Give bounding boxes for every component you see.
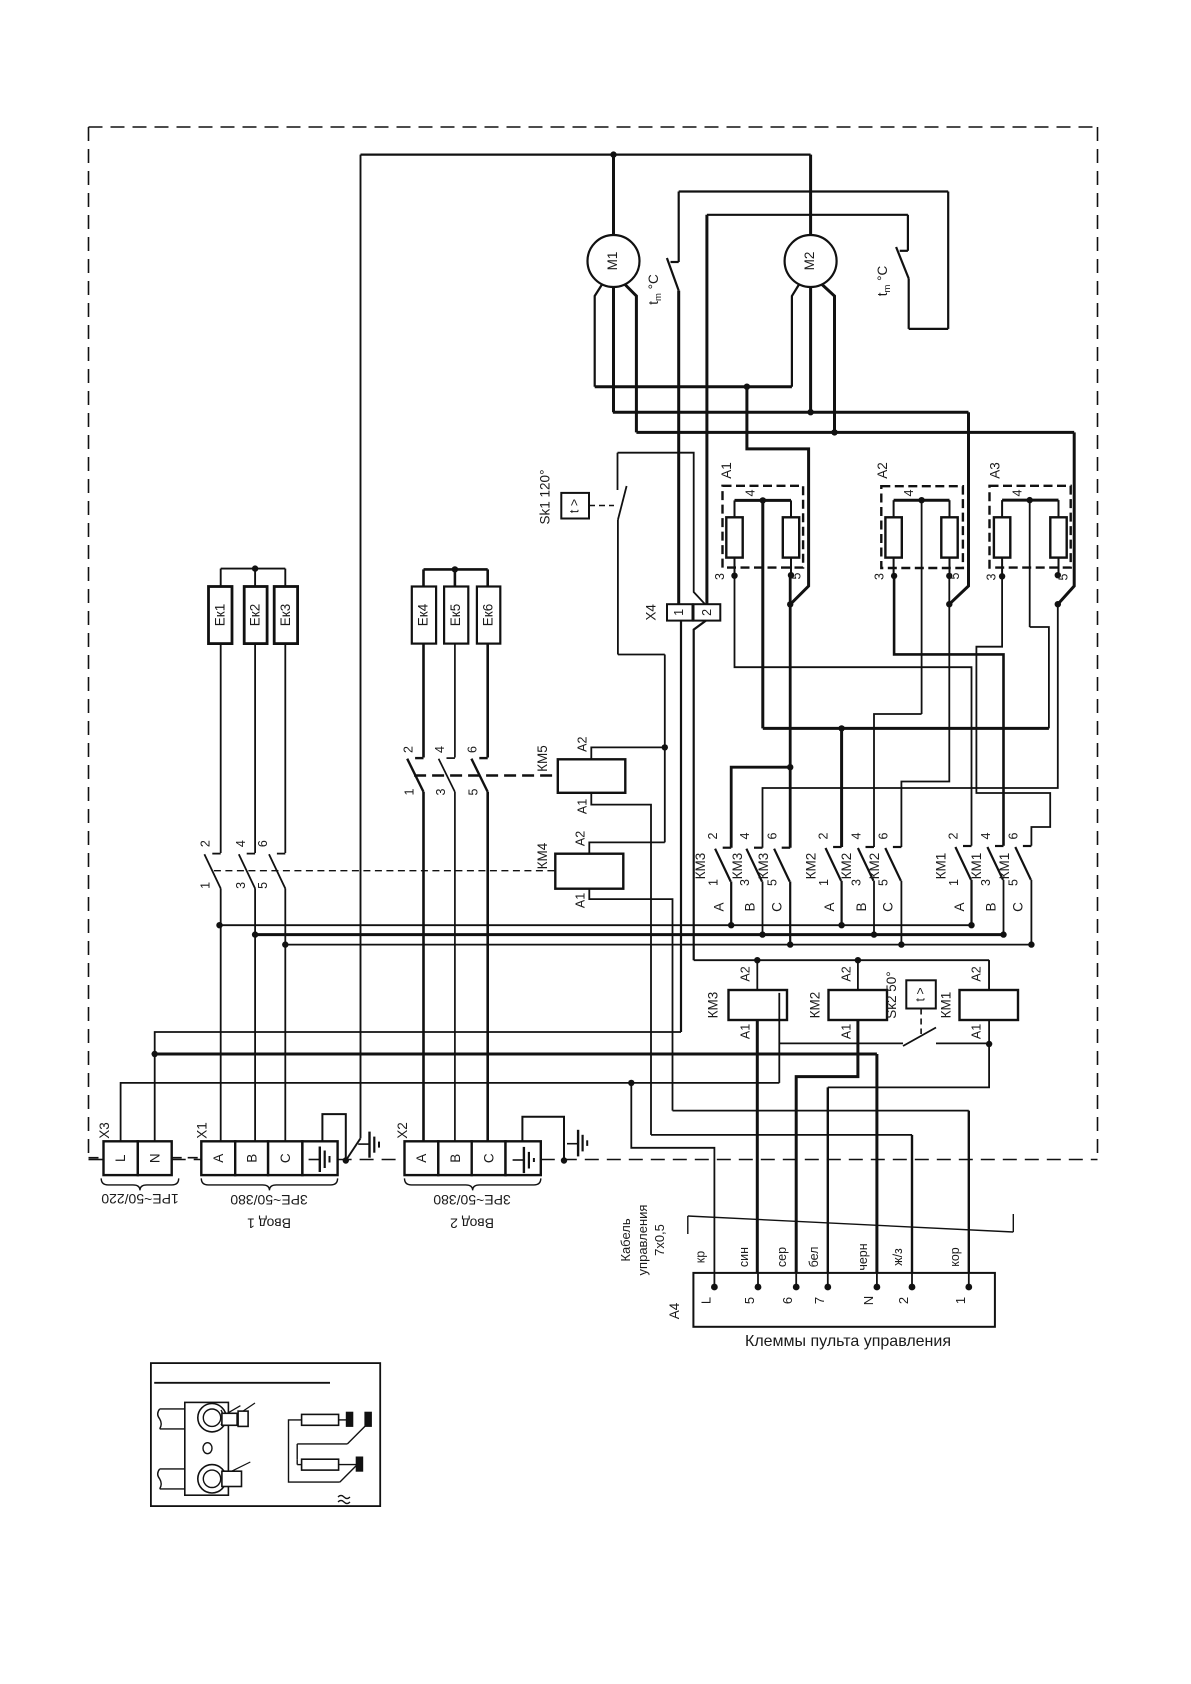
wire X4-2 down to coil A2 bus	[694, 621, 706, 961]
coil KM3	[729, 990, 788, 1020]
node A1 pin 3	[713, 573, 738, 580]
svg-text:A1: A1	[576, 799, 590, 814]
label Sk1 120	[538, 470, 553, 525]
wires Ek4-6 contacts down to X2	[424, 792, 488, 1141]
label Sk2 50	[884, 971, 899, 1018]
terminal X3	[104, 1141, 172, 1175]
thermal contact tm M2	[875, 215, 909, 329]
svg-text:X2: X2	[395, 1122, 410, 1139]
contact KM4 pole 1	[199, 840, 221, 889]
label A4 terminal L	[698, 1297, 713, 1304]
label A4 terminal 7	[812, 1297, 827, 1304]
label coil KM3	[706, 992, 721, 1019]
coil KM1	[960, 990, 1019, 1020]
wire KM3 A1 to A4-5	[739, 1020, 758, 1287]
contact KM2 pole C	[867, 832, 901, 944]
svg-text:A1: A1	[839, 1024, 853, 1039]
svg-text:4: 4	[902, 489, 916, 496]
wire A3 internal bus 4	[1002, 497, 1058, 627]
svg-text:4: 4	[738, 832, 752, 839]
wire X2 PE jumper	[522, 1117, 567, 1164]
svg-text:Ввод 1: Ввод 1	[247, 1216, 291, 1232]
svg-text:A2: A2	[739, 966, 753, 981]
svg-text:С: С	[482, 1153, 497, 1163]
coil KM4	[555, 854, 623, 889]
thermostat Sk1 sensor box	[561, 493, 589, 519]
label A4 terminal 6	[780, 1297, 795, 1304]
heater Ek5	[444, 587, 468, 644]
terminal A4 connection dots	[711, 1273, 972, 1291]
detail figure frame	[151, 1363, 380, 1506]
wire L distribution	[121, 1080, 780, 1142]
dashed linkage KM5 contacts to coil	[414, 774, 558, 776]
dashed box unit A2	[881, 486, 963, 568]
svg-text:М1: М1	[605, 252, 620, 271]
resistor A2 left element	[885, 500, 901, 576]
label wire colour сер	[775, 1247, 789, 1267]
wire A2 pin5 to KM2 pole C	[901, 576, 949, 847]
label wire colour кор	[948, 1247, 962, 1267]
label coil KM2	[808, 992, 823, 1019]
wire phase line 2 (y=412)	[613, 409, 969, 415]
label X2 system	[433, 1192, 511, 1208]
wire phase3 branch to A3 terminal 5	[1055, 432, 1075, 607]
label A4	[667, 1302, 682, 1319]
label X2 vvod 2	[450, 1216, 494, 1232]
svg-text:1: 1	[403, 788, 417, 795]
wire A1/A3 pin4 bus to KM2 pole A	[838, 627, 1049, 847]
label X3	[97, 1122, 112, 1139]
label KM4 A2	[574, 831, 588, 846]
svg-text:кор: кор	[948, 1247, 962, 1267]
motor M2	[785, 235, 837, 287]
svg-text:3РЕ~50/380: 3РЕ~50/380	[433, 1192, 511, 1208]
contact KM2 pole B	[839, 832, 874, 934]
wire KM5 A1 to A4-2	[651, 1135, 912, 1287]
svg-text:КМ2: КМ2	[839, 853, 854, 880]
wire X4-2 top lead	[705, 215, 708, 604]
detail figure equivalent circuit	[289, 1412, 372, 1503]
svg-text:4: 4	[744, 489, 758, 496]
label A4 terminal 5	[742, 1297, 757, 1304]
svg-text:С: С	[881, 902, 896, 912]
svg-text:черн: черн	[856, 1243, 870, 1270]
svg-text:Ек3: Ек3	[278, 604, 293, 626]
label KM5	[535, 745, 550, 772]
switch contact Sk2	[779, 993, 989, 1083]
dashed link Sk1 to switch	[589, 505, 614, 507]
svg-text:А: А	[211, 1154, 226, 1163]
wire KM4 A2	[589, 842, 665, 853]
contact KM3 pole B	[730, 832, 763, 934]
contact KM4 pole 2	[234, 840, 255, 889]
coil KM2	[829, 990, 888, 1020]
enclosure dashed border (cabinet outline)	[89, 127, 1098, 1160]
contact KM5 pole 2	[433, 746, 455, 796]
terminal X4 pin 1	[667, 604, 693, 620]
wires Ek4-6 to contacts	[424, 644, 488, 758]
wire N to A4-N	[155, 1054, 877, 1287]
svg-text:1: 1	[947, 879, 961, 886]
svg-text:КМ1: КМ1	[939, 992, 954, 1019]
svg-text:Ек6: Ек6	[480, 604, 495, 626]
svg-text:6: 6	[256, 840, 270, 847]
detail figure heater block pictorial	[158, 1402, 255, 1495]
svg-text:3РЕ~50/380: 3РЕ~50/380	[230, 1192, 308, 1208]
svg-text:3: 3	[873, 573, 887, 580]
contact KM3 pole C	[756, 832, 790, 944]
label unit A2	[875, 462, 890, 479]
wire A3 pin5 to KM3 pole B	[763, 604, 1058, 848]
svg-text:A2: A2	[576, 737, 590, 752]
wire phase line 1 (y=387)	[595, 384, 792, 390]
terminal X2 phases	[405, 1141, 506, 1175]
wire A1 pin4 segment	[763, 727, 842, 730]
label A1 pin 4	[744, 489, 758, 496]
svg-text:4: 4	[850, 832, 864, 839]
label unit A3	[988, 462, 1003, 479]
svg-text:4: 4	[234, 840, 248, 847]
wires Ek contacts down to X1	[221, 889, 286, 1142]
wires M2 bottom leads	[792, 285, 835, 433]
svg-text:3: 3	[713, 573, 727, 580]
svg-text:X4: X4	[644, 604, 659, 621]
wire A3 pin3 to KM1 pole C	[976, 576, 1050, 845]
svg-text:А: А	[414, 1154, 429, 1163]
label wire colour черн	[856, 1243, 870, 1270]
svg-text:Кабель: Кабель	[618, 1218, 633, 1261]
label A3 pin 4	[1011, 489, 1025, 496]
wire tm loop M1-M2	[679, 192, 949, 329]
svg-text:КМ5: КМ5	[535, 745, 550, 772]
label unit A1	[719, 462, 734, 479]
wire KM4 A1 down	[589, 889, 672, 1111]
svg-text:КМ3: КМ3	[706, 992, 721, 1019]
svg-text:ж/з: ж/з	[891, 1248, 905, 1266]
svg-text:A2: A2	[970, 966, 984, 981]
svg-text:син: син	[737, 1247, 751, 1267]
contact KM5 pole 1	[402, 746, 424, 796]
label A4 terminal N	[861, 1296, 876, 1305]
wire A2 internal bus 4	[894, 497, 950, 714]
wire A1 internal bus 4	[735, 497, 792, 728]
contact KM2 pole A	[804, 832, 842, 925]
label X2	[395, 1122, 410, 1139]
resistor A3 left element	[994, 500, 1010, 576]
dashed link Sk2 to switch	[920, 1009, 922, 1035]
svg-text:КМ4: КМ4	[535, 842, 550, 869]
svg-text:КМ3: КМ3	[693, 853, 708, 880]
svg-text:1: 1	[817, 879, 831, 886]
enclosure bottom dashed edge	[89, 1159, 1098, 1161]
svg-text:A3: A3	[988, 462, 1003, 479]
svg-text:7х0,5: 7х0,5	[652, 1224, 667, 1256]
wire L to A4-L	[631, 1083, 714, 1287]
svg-text:В: В	[448, 1154, 463, 1163]
svg-text:В: В	[984, 902, 999, 911]
svg-text:КМ1: КМ1	[934, 853, 949, 880]
brace X2	[405, 1178, 541, 1190]
svg-text:3: 3	[985, 573, 999, 580]
wires M1 bottom leads	[595, 285, 637, 433]
wire KM2 A2	[839, 960, 858, 990]
dashed enclosure pass X3	[89, 1157, 202, 1159]
svg-text:Клеммы пульта управления: Клеммы пульта управления	[745, 1333, 951, 1350]
svg-text:5: 5	[467, 788, 481, 795]
svg-text:5: 5	[256, 882, 270, 889]
heater Ek1	[209, 587, 233, 644]
node A3 pin 3	[985, 573, 1006, 580]
svg-text:Ек5: Ек5	[448, 604, 463, 626]
terminal X4 pin 2	[694, 604, 721, 620]
svg-text:A1: A1	[574, 893, 588, 908]
svg-text:L: L	[698, 1297, 713, 1304]
svg-text:7: 7	[812, 1297, 827, 1304]
svg-text:Ек2: Ек2	[248, 604, 263, 626]
svg-text:С: С	[770, 902, 785, 912]
wire N riser to thermal chain	[152, 1032, 682, 1141]
svg-text:3: 3	[979, 879, 993, 886]
label X1 system	[230, 1192, 308, 1208]
svg-text:КМ2: КМ2	[808, 992, 823, 1019]
brace X1	[201, 1178, 337, 1190]
label X1	[195, 1122, 210, 1139]
svg-text:Sk1 120°: Sk1 120°	[538, 470, 553, 525]
svg-text:2: 2	[896, 1297, 911, 1304]
heater Ek6	[477, 587, 500, 644]
svg-text:М2: М2	[802, 252, 817, 271]
label KM4	[535, 842, 550, 869]
ground symbol X2	[567, 1130, 587, 1157]
svg-text:А: А	[712, 902, 727, 911]
svg-text:1РЕ~50/220: 1РЕ~50/220	[101, 1191, 179, 1207]
svg-text:A2: A2	[875, 462, 890, 479]
resistor A1 right element	[783, 500, 799, 575]
wire bus phase A	[216, 922, 974, 928]
svg-text:КМ3: КМ3	[756, 853, 771, 880]
terminal strip A4	[693, 1273, 995, 1327]
label KM5 A1	[576, 799, 590, 814]
thermal contact tm M1	[646, 192, 679, 305]
dashed box unit A1	[723, 486, 804, 568]
svg-text:4: 4	[1011, 489, 1025, 496]
svg-text:КМ1: КМ1	[969, 853, 984, 880]
label wire colour син	[737, 1247, 751, 1267]
wire KM3 A2	[739, 960, 758, 990]
resistor A1 left element	[726, 500, 742, 575]
wire M2 top lead	[809, 155, 812, 235]
wire A1 pin3 to KM1 pole A	[735, 576, 972, 846]
label cable 7x0.5	[618, 1205, 667, 1276]
label KM5 A2	[576, 737, 590, 752]
node M1 feed junction	[610, 151, 616, 157]
svg-text:управления: управления	[635, 1205, 650, 1276]
svg-text:4: 4	[979, 832, 993, 839]
svg-text:A2: A2	[839, 966, 853, 981]
svg-text:L: L	[113, 1154, 128, 1162]
svg-text:A4: A4	[667, 1302, 682, 1319]
switch contact Sk1	[618, 453, 665, 655]
svg-text:А: А	[822, 902, 837, 911]
wire coil A2 feed bus from X4-2	[694, 957, 989, 990]
svg-text:Sk2 50°: Sk2 50°	[884, 971, 899, 1018]
svg-text:КМ2: КМ2	[804, 853, 819, 880]
svg-text:КМ1: КМ1	[997, 853, 1012, 880]
svg-text:2: 2	[402, 746, 416, 753]
svg-text:С: С	[1011, 902, 1026, 912]
wire phase2 branch to A2 terminal 5	[946, 412, 968, 607]
contact KM1 pole B	[969, 832, 1004, 934]
dashed box unit A3	[990, 486, 1071, 568]
wire to A4-1	[673, 1111, 969, 1287]
svg-text:2: 2	[199, 840, 213, 847]
svg-text:t >: t >	[568, 499, 582, 513]
wire bus phase B	[252, 931, 1007, 937]
svg-text:В: В	[245, 1154, 260, 1163]
wire A1 pin5 to KM3 poles A and C	[731, 575, 793, 848]
label A4 terminal 1	[953, 1297, 968, 1304]
terminal X1 phases	[201, 1141, 302, 1175]
wire A2 pin4 to KM2 pole B	[874, 714, 922, 847]
svg-text:1: 1	[199, 882, 213, 889]
contact KM1 pole A	[934, 832, 972, 925]
wire X4-1 down to N link	[680, 621, 682, 1032]
svg-text:С: С	[278, 1153, 293, 1163]
svg-text:A1: A1	[719, 462, 734, 479]
svg-text:6: 6	[1007, 832, 1021, 839]
dashed linkage KM4 contacts to coil	[214, 870, 555, 872]
svg-text:6: 6	[766, 832, 780, 839]
wire Sk1 to KM coils A2	[664, 655, 666, 843]
wires Ek1-3 to contacts	[221, 644, 286, 853]
wire Ek1-3 top bus	[221, 565, 286, 586]
svg-text:5: 5	[877, 879, 891, 886]
svg-text:3: 3	[434, 788, 448, 795]
svg-text:N: N	[861, 1296, 876, 1305]
wire Ek4-6 top bus	[424, 566, 488, 586]
label X4	[644, 604, 659, 621]
wire KM5 A1 down	[591, 793, 651, 1135]
svg-text:Ввод 2: Ввод 2	[450, 1216, 494, 1232]
cable marker line	[688, 1214, 1014, 1234]
svg-text:А: А	[952, 902, 967, 911]
contact KM5 pole 3	[466, 746, 488, 796]
wire bus phase C	[282, 941, 1035, 947]
svg-text:бел: бел	[807, 1247, 821, 1268]
svg-text:6: 6	[780, 1297, 795, 1304]
wire KM1 A2	[970, 960, 990, 990]
wire M1 top lead	[612, 155, 615, 235]
svg-text:t >: t >	[914, 987, 928, 1001]
wire phase1 branch to A1 terminal 5	[747, 387, 809, 605]
contact KM3 pole A	[693, 832, 731, 925]
svg-text:2: 2	[700, 609, 714, 616]
svg-text:A1: A1	[739, 1024, 753, 1039]
thermostat Sk2 sensor box	[906, 980, 936, 1008]
wire top feed bus and PE riser	[346, 155, 811, 1161]
label klemmy pulta upravleniya	[745, 1333, 951, 1350]
svg-text:Ек1: Ек1	[213, 604, 228, 626]
svg-text:кр: кр	[693, 1251, 707, 1263]
node A2 pin 3	[873, 573, 898, 580]
node A1 pin 5	[787, 572, 804, 608]
wire tm M2 to X4-2	[707, 214, 908, 216]
motor M1	[588, 235, 640, 287]
svg-text:X3: X3	[97, 1122, 112, 1139]
node A3 pin 5	[1055, 572, 1071, 580]
label wire colour кр	[693, 1251, 707, 1263]
node A2 pin 5	[946, 572, 962, 579]
svg-text:2: 2	[706, 832, 720, 839]
svg-text:X1: X1	[195, 1122, 210, 1139]
heater Ek2	[244, 587, 267, 644]
wire phase line 3 (y=432)	[636, 429, 1074, 435]
svg-text:В: В	[854, 902, 869, 911]
svg-text:6: 6	[466, 746, 480, 753]
label X3 system	[101, 1191, 179, 1207]
svg-text:3: 3	[234, 882, 248, 889]
ground symbol X1	[358, 1132, 379, 1158]
terminal X1 PE cell	[302, 1141, 337, 1175]
svg-text:5: 5	[1007, 879, 1021, 886]
svg-text:3: 3	[850, 879, 864, 886]
svg-text:4: 4	[433, 746, 447, 753]
wire KM1 A1 to A4-7	[828, 1020, 993, 1287]
svg-text:5: 5	[742, 1297, 757, 1304]
svg-text:N: N	[148, 1153, 163, 1163]
wire KM2 A1 to A4-6	[796, 1020, 858, 1287]
label A4 terminal 2	[896, 1297, 911, 1304]
svg-text:КМ3: КМ3	[730, 853, 745, 880]
svg-text:6: 6	[877, 832, 891, 839]
wire A2 pin3 to KM1 pole B	[894, 576, 1003, 846]
wire tm M1 to X4-1	[677, 291, 680, 605]
heater Ek3	[274, 587, 297, 644]
svg-text:1: 1	[672, 609, 686, 616]
svg-text:Ек4: Ек4	[416, 603, 431, 626]
label coil KM1	[939, 992, 954, 1019]
svg-text:2: 2	[947, 832, 961, 839]
resistor A3 right element	[1050, 500, 1066, 575]
heater Ek4	[412, 587, 436, 644]
coil KM5	[558, 759, 626, 793]
svg-text:A2: A2	[574, 831, 588, 846]
wire X1 PE jumper	[322, 1114, 349, 1164]
brace X3	[101, 1178, 179, 1190]
svg-text:A1: A1	[970, 1024, 984, 1039]
svg-text:1: 1	[707, 879, 721, 886]
terminal X2 PE cell	[506, 1141, 541, 1175]
label wire colour ж/з	[891, 1248, 905, 1266]
svg-text:В: В	[743, 902, 758, 911]
resistor A2 right element	[941, 500, 957, 576]
label wire colour бел	[807, 1247, 821, 1268]
svg-text:1: 1	[953, 1297, 968, 1304]
svg-text:КМ2: КМ2	[867, 853, 882, 880]
contact KM1 pole C	[997, 832, 1031, 944]
label X1 vvod 1	[247, 1216, 291, 1232]
wire Sk1 to X4-2	[618, 453, 706, 605]
svg-text:2: 2	[817, 832, 831, 839]
svg-text:5: 5	[766, 879, 780, 886]
svg-text:сер: сер	[775, 1247, 789, 1267]
wire KM5 A2	[591, 744, 668, 759]
contact KM4 pole 3	[256, 840, 285, 889]
label KM4 A1	[574, 893, 588, 908]
label A2 pin 4	[902, 489, 916, 496]
svg-text:5: 5	[1057, 573, 1071, 580]
svg-text:3: 3	[738, 879, 752, 886]
